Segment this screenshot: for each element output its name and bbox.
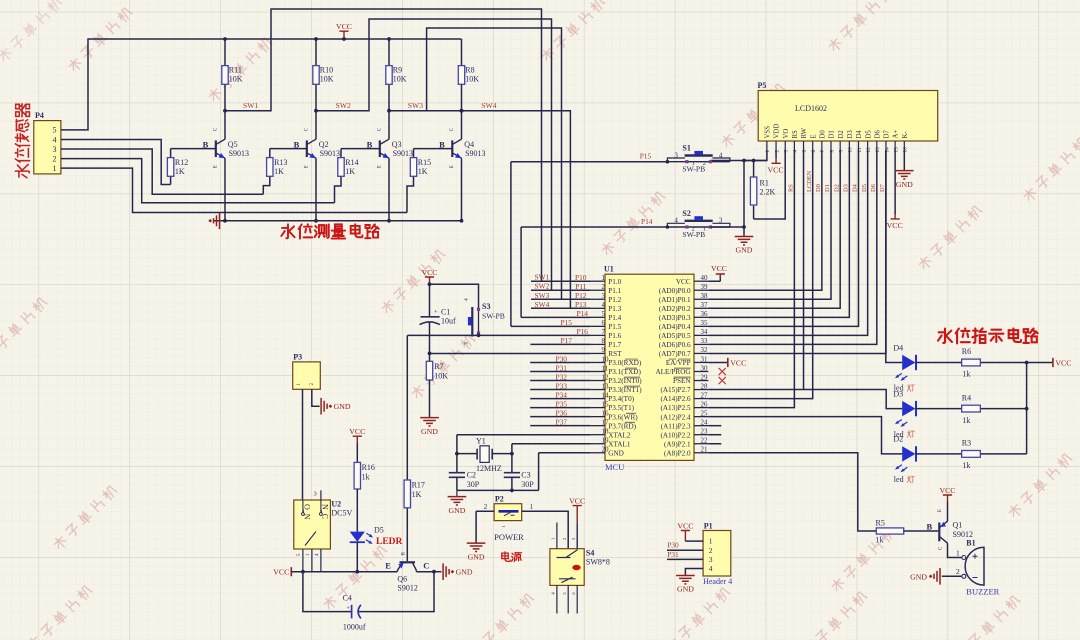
junction RST row <box>428 352 432 356</box>
svg-text:PSEN: PSEN <box>673 377 691 385</box>
svg-text:A+: A+ <box>893 130 900 139</box>
svg-text:K-: K- <box>902 131 909 139</box>
svg-text:3: 3 <box>784 150 790 153</box>
wire E column <box>708 150 812 399</box>
wire xtal ground rail <box>457 489 539 491</box>
svg-text:16: 16 <box>903 147 909 153</box>
resistor R6 1k <box>916 362 1027 364</box>
svg-text:VSS: VSS <box>765 126 772 139</box>
watermark <box>67 7 133 73</box>
svg-text:R1: R1 <box>760 179 769 188</box>
wire row P12 <box>531 298 591 300</box>
svg-text:2: 2 <box>774 150 780 153</box>
svg-text:ALE/PROG: ALE/PROG <box>655 368 690 376</box>
svg-text:25: 25 <box>701 409 709 417</box>
junction D5 <box>355 570 359 574</box>
svg-text:SW8*8: SW8*8 <box>586 558 610 567</box>
connector P2 POWER <box>494 504 522 521</box>
svg-text:POWER: POWER <box>494 532 524 542</box>
wire base Q2 <box>270 148 307 150</box>
svg-text:E: E <box>810 134 817 138</box>
svg-text:Q1: Q1 <box>953 521 963 530</box>
svg-text:S9013: S9013 <box>320 149 340 158</box>
pin 18 stub left <box>591 434 605 436</box>
wire VCC to C1 R7 column <box>429 284 431 362</box>
svg-text:R7: R7 <box>434 362 443 371</box>
junction SW row 3 <box>387 109 391 113</box>
svg-text:B: B <box>294 139 300 149</box>
resistor R10 10K <box>315 39 317 111</box>
wire row P15 <box>511 162 591 327</box>
wire P4 pin5 to VCC rail <box>61 39 225 130</box>
wire P25 row to D2 <box>708 417 902 454</box>
svg-text:D0: D0 <box>815 184 822 192</box>
svg-text:R5: R5 <box>876 518 885 527</box>
svg-text:10K: 10K <box>393 75 407 84</box>
svg-text:2: 2 <box>692 225 695 232</box>
svg-text:3: 3 <box>314 491 317 498</box>
pin 8 stub left <box>591 343 605 345</box>
svg-text:LCD1602: LCD1602 <box>795 104 827 113</box>
svg-text:(A12)P2.4: (A12)P2.4 <box>660 413 691 421</box>
wire RS column <box>708 150 794 408</box>
transistor Q4 S9013 <box>461 111 463 221</box>
svg-text:D5: D5 <box>374 526 384 535</box>
svg-text:D6: D6 <box>874 130 881 139</box>
svg-text:P1.4: P1.4 <box>608 314 621 322</box>
pin 30 stub right <box>694 371 708 373</box>
svg-text:10K: 10K <box>465 75 479 84</box>
ground measurement rail <box>214 213 220 230</box>
svg-text:15: 15 <box>893 147 899 153</box>
svg-text:40: 40 <box>701 274 709 282</box>
svg-text:30: 30 <box>701 364 709 372</box>
svg-text:B: B <box>927 521 933 531</box>
wire stub pin24 <box>708 425 721 427</box>
svg-text:R17: R17 <box>412 481 425 490</box>
svg-text:2.2K: 2.2K <box>760 188 776 197</box>
net SW3 wire <box>389 28 562 299</box>
svg-text:R6: R6 <box>962 347 971 356</box>
wire R7 to GND <box>429 380 431 418</box>
wire VCC pin40 <box>708 275 720 282</box>
LCD pin 12 stub <box>867 141 869 150</box>
wire D3 column to P0.3 <box>708 150 849 317</box>
svg-text:VO: VO <box>783 129 790 139</box>
pin 7 stub left <box>591 334 605 336</box>
wire P1 pin1 <box>685 540 703 542</box>
svg-text:+: + <box>346 605 350 612</box>
svg-text:3: 3 <box>709 555 713 564</box>
wire buzzer pin2 to GND <box>942 575 962 577</box>
power VCC Q1 <box>947 502 949 522</box>
pin 33 stub right <box>694 343 708 345</box>
ground P2 <box>467 543 486 551</box>
svg-text:10K: 10K <box>229 75 243 84</box>
capacitor C1 10uf <box>421 316 440 318</box>
resistor R5 1k <box>876 528 903 534</box>
wire base Q4 <box>414 148 453 150</box>
pin 21 stub right <box>694 452 708 454</box>
svg-text:GND: GND <box>896 180 913 189</box>
red vertical label 水位传感器 <box>16 104 30 117</box>
svg-text:R11: R11 <box>229 65 242 74</box>
connector P1 Header 4 <box>703 531 731 577</box>
pin 20 stub left <box>591 452 605 454</box>
svg-text:P15: P15 <box>640 152 652 161</box>
svg-text:S2: S2 <box>682 209 690 218</box>
svg-text:VCC: VCC <box>768 166 784 175</box>
svg-text:1k: 1k <box>962 370 970 379</box>
ground Q6 collector <box>443 563 449 580</box>
svg-text:Header 4: Header 4 <box>703 577 732 586</box>
svg-text:1000uf: 1000uf <box>343 623 366 632</box>
svg-text:VCC: VCC <box>887 221 903 230</box>
svg-text:2: 2 <box>956 567 960 576</box>
svg-text:D4: D4 <box>856 130 863 139</box>
watermark <box>322 545 388 611</box>
svg-text:P1: P1 <box>704 522 713 531</box>
svg-text:13: 13 <box>875 147 881 153</box>
svg-text:GND: GND <box>334 402 351 411</box>
pin 34 stub right <box>694 334 708 336</box>
svg-text:22: 22 <box>701 437 709 445</box>
svg-text:VCC: VCC <box>336 22 352 31</box>
svg-text:3: 3 <box>719 217 723 225</box>
wire S3 top branch <box>430 284 479 307</box>
junction crystal right <box>510 452 514 456</box>
svg-text:(A10)P2.2: (A10)P2.2 <box>660 431 691 439</box>
wire base Q3 <box>341 148 380 150</box>
svg-text:S4: S4 <box>586 548 594 557</box>
IC P5 LCD1602 body <box>758 91 938 142</box>
svg-text:7: 7 <box>820 150 826 153</box>
pin 23 stub right <box>694 434 708 436</box>
svg-text:led: led <box>894 475 904 484</box>
svg-text:2: 2 <box>602 283 606 291</box>
svg-text:XTAL2: XTAL2 <box>608 431 631 439</box>
wire row P13 <box>531 307 591 309</box>
svg-text:1: 1 <box>709 537 713 546</box>
svg-text:C4: C4 <box>343 593 352 602</box>
svg-text:P3.1(TXD): P3.1(TXD) <box>608 368 641 376</box>
wire P1 pin3 <box>667 558 703 560</box>
svg-text:P12: P12 <box>575 291 587 300</box>
watermark <box>380 249 446 315</box>
ground buzzer <box>934 568 940 585</box>
svg-text:VCC: VCC <box>1055 359 1071 368</box>
svg-text:P1.3: P1.3 <box>608 305 621 313</box>
svg-text:31: 31 <box>701 355 709 363</box>
LCD pin 4 stub <box>793 141 795 150</box>
svg-text:(A14)P2.6: (A14)P2.6 <box>660 395 691 403</box>
svg-text:P1.6: P1.6 <box>608 332 621 340</box>
svg-text:36: 36 <box>701 310 709 318</box>
svg-text:SW3: SW3 <box>408 101 423 110</box>
svg-text:P30: P30 <box>667 540 679 549</box>
svg-text:SW4: SW4 <box>535 300 550 309</box>
svg-text:LEDR: LEDR <box>376 537 403 547</box>
resistor R3 1k <box>916 453 1027 455</box>
wire VCC pin31 <box>708 361 727 363</box>
svg-text:SW3: SW3 <box>535 291 550 300</box>
svg-text:P3.0(RXD): P3.0(RXD) <box>608 359 642 367</box>
pin 5 stub left <box>591 316 605 318</box>
wire D7 column to D4 <box>886 150 902 363</box>
svg-text:U1: U1 <box>604 265 614 274</box>
wire row P30 <box>530 361 590 363</box>
svg-text:S1: S1 <box>682 144 690 153</box>
svg-text:P13: P13 <box>575 300 587 309</box>
svg-text:Q5: Q5 <box>228 140 238 149</box>
svg-text:VCC: VCC <box>273 568 289 577</box>
wire row P14 <box>521 227 591 317</box>
svg-text:D5: D5 <box>865 130 872 139</box>
svg-text:(AD7)P0.7: (AD7)P0.7 <box>659 350 691 358</box>
pin 24 stub right <box>694 425 708 427</box>
wire P15 to S1 <box>511 161 668 163</box>
power VCC P1 pin1 <box>681 531 690 542</box>
svg-text:5: 5 <box>602 310 606 318</box>
svg-text:P1.0: P1.0 <box>608 278 621 286</box>
svg-text:30P: 30P <box>521 480 534 489</box>
svg-text:R15: R15 <box>418 158 431 167</box>
wire P14 to S2 <box>521 226 667 228</box>
svg-text:(A8)P2.0: (A8)P2.0 <box>664 449 691 457</box>
pin 31 stub right <box>694 361 708 363</box>
wire P4 pin4 to R12 <box>61 140 171 185</box>
resistor R16 1k <box>356 443 358 463</box>
transistor Q5 S9013 <box>224 111 226 221</box>
no-connect X pin30 <box>719 368 726 375</box>
svg-text:D1: D1 <box>824 184 831 192</box>
transistor Q2 S9013 <box>315 111 317 221</box>
wire crystal left <box>457 453 477 455</box>
svg-text:D2: D2 <box>893 435 903 444</box>
switch S1 SW-PB <box>666 151 730 164</box>
svg-text:S3: S3 <box>482 302 490 311</box>
pin 4 stub left <box>591 307 605 309</box>
svg-text:4: 4 <box>709 564 713 573</box>
svg-text:2: 2 <box>53 154 57 163</box>
junction SW row 2 <box>314 109 318 113</box>
svg-text:(AD5)P0.5: (AD5)P0.5 <box>659 332 691 340</box>
wire D6 column to P0.6 <box>708 150 876 344</box>
pin 38 stub right <box>694 298 708 300</box>
pin 15 stub left <box>591 407 605 409</box>
svg-text:RST: RST <box>608 350 622 358</box>
svg-text:P5: P5 <box>758 81 767 90</box>
svg-text:BUZZER: BUZZER <box>966 587 999 597</box>
svg-text:RS: RS <box>792 130 799 139</box>
wire LCD VSS to GND junction <box>744 150 767 161</box>
resistor R15 1K <box>407 149 414 213</box>
svg-text:11: 11 <box>857 147 863 152</box>
wire S2 right to GND column <box>710 226 744 228</box>
svg-text:D5: D5 <box>861 184 868 192</box>
svg-text:10: 10 <box>848 147 854 153</box>
svg-text:4: 4 <box>719 151 723 159</box>
svg-text:6: 6 <box>602 319 606 327</box>
junction rail R10 <box>314 37 318 41</box>
junction emitter GND rail 4 <box>460 219 464 223</box>
svg-text:Q4: Q4 <box>464 140 474 149</box>
wire row P10 <box>531 280 591 282</box>
svg-text:(AD6)P0.6: (AD6)P0.6 <box>659 341 691 349</box>
watermark <box>917 205 983 271</box>
svg-text:P3.4(T0): P3.4(T0) <box>608 395 634 403</box>
svg-text:4: 4 <box>674 217 678 225</box>
junction rail R9 <box>387 37 391 41</box>
pin 27 stub right <box>694 398 708 400</box>
svg-text:E: E <box>938 509 943 512</box>
svg-text:SW-PB: SW-PB <box>482 312 505 321</box>
resistor R14 1K <box>335 149 342 203</box>
svg-text:VCC: VCC <box>939 486 955 495</box>
svg-text:(AD3)P0.3: (AD3)P0.3 <box>659 314 691 322</box>
wire R5 to Q1 base <box>904 530 939 532</box>
svg-text:P1.2: P1.2 <box>608 296 621 304</box>
svg-text:E: E <box>305 165 310 168</box>
LCD pin 14 stub <box>885 141 887 150</box>
svg-text:EA/VPP: EA/VPP <box>666 359 691 367</box>
svg-text:(AD4)P0.4: (AD4)P0.4 <box>659 323 691 331</box>
svg-text:SW1: SW1 <box>243 101 258 110</box>
junction U2 pin C4 <box>301 570 305 574</box>
net SW4 wire <box>427 111 571 309</box>
svg-text:7: 7 <box>602 328 606 336</box>
power VCC pin31 <box>727 358 729 367</box>
ground R7 <box>420 418 439 426</box>
wire VCC rail to Q6 emitter <box>291 571 397 573</box>
svg-text:P11: P11 <box>575 282 587 291</box>
svg-text:SW4: SW4 <box>481 101 496 110</box>
wire P1 pin4 to GND <box>685 569 703 576</box>
svg-text:23: 23 <box>701 428 709 436</box>
svg-text:B: B <box>439 139 445 149</box>
svg-text:R3: R3 <box>962 439 971 448</box>
switch S3 SW-PB vertical <box>468 307 480 337</box>
svg-text:8: 8 <box>829 150 835 153</box>
pins U2 bottom stubs <box>303 549 321 572</box>
wire row P32 <box>530 380 590 382</box>
capacitor C2 30P <box>456 454 458 473</box>
pin U2-3 stub <box>320 490 322 500</box>
svg-text:34: 34 <box>701 328 709 336</box>
junction VSS GND <box>742 159 746 163</box>
svg-text:(AD1)P0.1: (AD1)P0.1 <box>659 296 691 304</box>
svg-text:O_N: O_N <box>302 504 311 520</box>
svg-text:2: 2 <box>709 546 713 555</box>
svg-text:S9013: S9013 <box>465 149 485 158</box>
LCD pin 15 stub <box>894 141 896 150</box>
svg-text:P3.5(T1): P3.5(T1) <box>608 404 634 412</box>
svg-text:1: 1 <box>703 225 706 232</box>
wire P20 row to R5 <box>708 453 876 531</box>
wire to VCC right <box>1027 362 1053 364</box>
wire P4 pin1 to R15 <box>61 168 407 212</box>
wire P2 pin1 to S4 <box>522 511 569 548</box>
svg-text:1k: 1k <box>962 461 970 470</box>
svg-text:U2: U2 <box>331 500 341 509</box>
LCD pin 6 stub <box>812 141 814 150</box>
pin 29 stub right <box>694 380 708 382</box>
junction S3 P16 row <box>477 333 481 337</box>
svg-text:E: E <box>378 165 383 168</box>
switch S2 SW-PB <box>666 216 730 229</box>
svg-text:XTAL1: XTAL1 <box>608 440 631 448</box>
power VCC pin40 <box>716 274 725 278</box>
svg-text:C3: C3 <box>521 471 530 480</box>
relay U2 DC5V body <box>294 500 331 549</box>
wire P3 pin2 to GND <box>312 389 320 406</box>
watermark <box>827 0 893 53</box>
ground crystal <box>456 490 458 496</box>
svg-text:D4: D4 <box>893 343 903 352</box>
svg-text:DC5V: DC5V <box>331 509 352 518</box>
wire P1 pin2 <box>667 549 703 551</box>
svg-text:1k: 1k <box>962 416 970 425</box>
wire row P36 <box>530 416 590 418</box>
svg-text:S9012: S9012 <box>397 584 417 593</box>
wire row P11 <box>531 289 591 291</box>
junction SW4 R8 <box>460 109 464 113</box>
power VCC led bus <box>1052 358 1054 367</box>
led D3 <box>902 401 915 416</box>
wire VCC rail top <box>225 38 462 40</box>
wire P27 row to D3 <box>708 390 902 409</box>
svg-text:P10: P10 <box>575 273 587 282</box>
svg-text:(AD2)P0.2: (AD2)P0.2 <box>659 305 691 313</box>
wire stub pin23 <box>708 434 721 436</box>
wire row P16 to R17 <box>407 335 590 480</box>
junction emitter GND rail 1 <box>223 219 227 223</box>
junction Q6 collector <box>432 570 436 574</box>
pin 39 stub right <box>694 289 708 291</box>
LCD pin 8 stub <box>830 141 832 150</box>
wire emitter GND rail <box>214 220 462 222</box>
wire GND stub Q6 <box>434 571 442 573</box>
pin 1 stub left <box>591 280 605 282</box>
svg-text:RW: RW <box>801 127 808 138</box>
pin 22 stub right <box>694 443 708 445</box>
watermark <box>410 334 476 400</box>
resistor R9 10K <box>388 39 390 111</box>
LCD pin 10 stub <box>848 141 850 150</box>
svg-text:D6: D6 <box>870 184 877 192</box>
svg-text:4: 4 <box>53 135 57 144</box>
svg-text:R12: R12 <box>175 158 188 167</box>
LCD pin 3 stub <box>784 141 786 150</box>
LCD pin 9 stub <box>839 141 841 150</box>
pins S4 bottom <box>557 585 577 613</box>
no-connect X pin29 <box>719 377 726 384</box>
wire row P34 <box>530 398 590 400</box>
svg-text:5: 5 <box>53 126 57 135</box>
svg-text:P1.5: P1.5 <box>608 323 621 331</box>
svg-text:(A15)P2.7: (A15)P2.7 <box>660 386 691 394</box>
svg-text:10K: 10K <box>320 75 334 84</box>
power VCC S4 <box>573 506 582 524</box>
svg-text:9: 9 <box>602 346 606 354</box>
svg-text:Q6: Q6 <box>397 575 407 584</box>
svg-text:(AD0)P0.0: (AD0)P0.0 <box>659 287 691 295</box>
junction SW row 4 <box>460 109 464 113</box>
watermark <box>720 83 786 149</box>
LCD pin 13 stub <box>876 141 878 150</box>
svg-text:9: 9 <box>838 150 844 153</box>
wire crystal right <box>492 453 512 455</box>
